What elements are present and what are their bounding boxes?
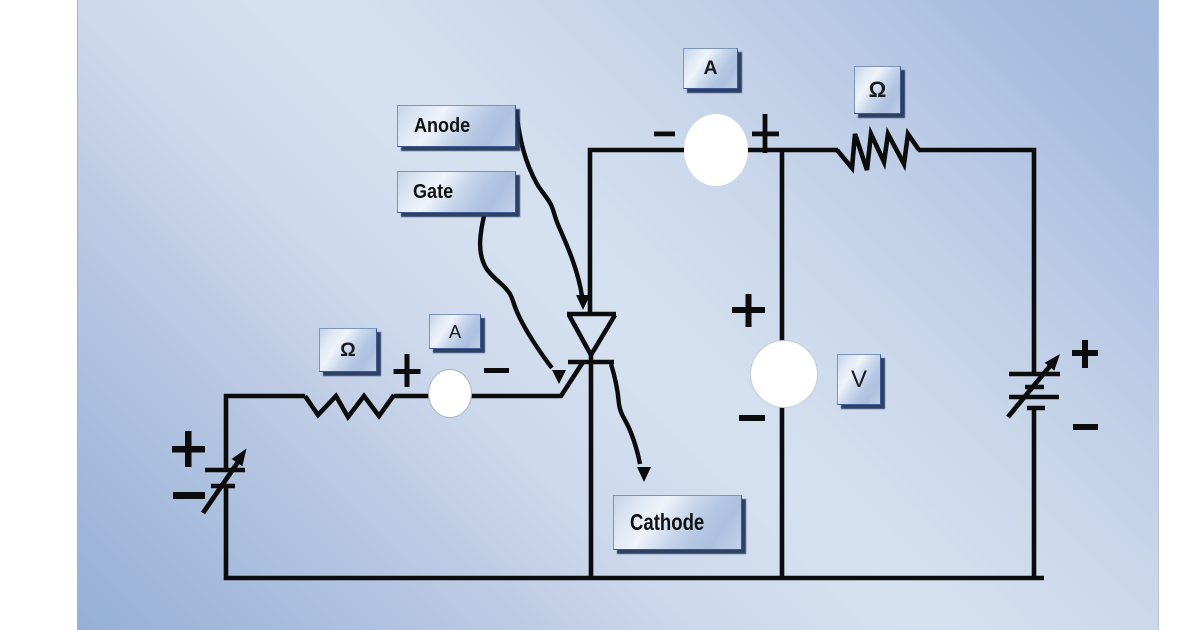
label box: Anode [397, 105, 516, 147]
wire: left horizontal to gate, with gate diagonal [394, 362, 583, 396]
SCR anode bar [567, 312, 616, 317]
battery B1 variable arrow [203, 449, 247, 514]
SCR triangle [569, 315, 615, 355]
label box: Gate [397, 171, 516, 213]
wire: middle vertical branch (top half, to voltmeter) [780, 150, 785, 345]
plus sign for battery B2 [1072, 340, 1098, 368]
callout curve: Anode to SCR [516, 110, 590, 310]
wire: cathode vertical (SCR to bottom rail) [589, 352, 594, 578]
minus sign for battery B1 [173, 492, 205, 499]
label box: Ω (left resistor) [319, 328, 377, 372]
minus sign for ammeter A2 [484, 368, 509, 373]
wire: right vertical below battery [1032, 408, 1037, 578]
ammeter A2 (left) white circle [429, 370, 472, 418]
plus sign for ammeter A2 [394, 354, 421, 387]
SCR cathode bar [568, 360, 614, 365]
label box: A (top ammeter) [683, 48, 738, 89]
label box: V (voltmeter) [837, 354, 881, 405]
voltmeter V1 white circle [751, 341, 818, 408]
label box: Ω (top resistor) [854, 66, 901, 114]
label box: A (left ammeter) [429, 314, 481, 349]
battery B2 variable arrow [1008, 354, 1060, 417]
wire: middle vertical branch (bottom half, voltmeter to bottom rail) [780, 405, 785, 578]
minus sign for ammeter A1 [654, 132, 675, 137]
callout curve: SCR cathode to Cathode label [611, 364, 651, 482]
wire: top horizontal (left part) [590, 150, 838, 316]
plus sign for battery B1 [172, 431, 205, 467]
label box: Cathode [613, 495, 742, 550]
wire: left loop (left vertical top, to battery) [226, 396, 305, 470]
plus sign for ammeter A1 [752, 114, 779, 153]
minus sign for voltmeter V1 [739, 415, 765, 421]
wire: top horizontal (right part) with right vertical drop [918, 150, 1034, 374]
plus sign for voltmeter V1 [732, 294, 765, 327]
minus sign for battery B2 [1073, 424, 1098, 430]
ammeter A1 (top) white circle [684, 114, 748, 186]
wire: left vertical below battery + bottom rail [226, 486, 1044, 578]
resistor R2 (top, Ω) [837, 134, 919, 170]
battery B1 (left, variable) plates [205, 470, 245, 486]
callout curve: Gate to SCR gate lead [480, 216, 566, 384]
resistor R1 (left, Ω) [305, 395, 394, 417]
battery B2 (right, variable) plates [1009, 374, 1060, 408]
